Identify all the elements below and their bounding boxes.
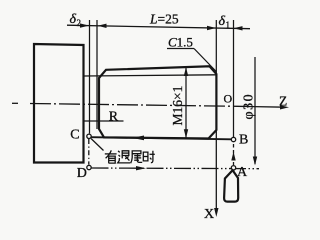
svg-text:A: A [237, 165, 248, 180]
svg-text:Z: Z [279, 94, 287, 109]
svg-text:δ: δ [70, 12, 77, 27]
svg-text:M16×1: M16×1 [170, 86, 185, 126]
svg-text:R: R [109, 110, 119, 125]
svg-text:D: D [77, 166, 87, 181]
svg-text:2: 2 [77, 18, 82, 28]
svg-text:C1.5: C1.5 [168, 35, 193, 50]
svg-text:δ: δ [219, 14, 226, 29]
svg-text:φ30: φ30 [242, 93, 257, 120]
svg-text:X: X [204, 207, 214, 222]
svg-text:1: 1 [226, 20, 231, 30]
svg-text:C: C [70, 127, 79, 142]
svg-text:O: O [224, 92, 233, 106]
svg-text:L=25: L=25 [149, 12, 179, 27]
svg-text:B: B [239, 133, 248, 148]
